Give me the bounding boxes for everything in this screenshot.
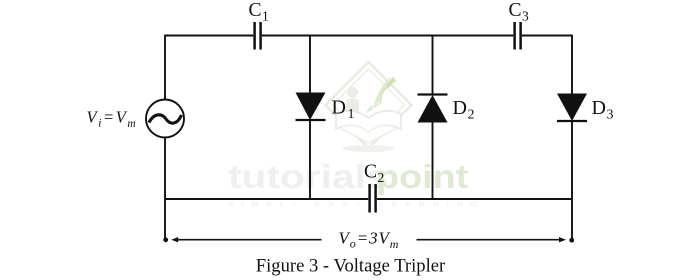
arrow right of Vo	[417, 237, 567, 242]
svg-text:C: C	[509, 0, 522, 21]
wire right drop to node	[571, 198, 573, 240]
watermark logo diamond	[326, 62, 412, 152]
wire D3 bottom	[571, 121, 573, 199]
capacitor C3	[515, 22, 521, 50]
wire D1 bottom	[309, 120, 311, 199]
svg-text:D: D	[332, 97, 346, 119]
svg-text:2: 2	[468, 108, 475, 123]
wire source top	[164, 35, 166, 100]
wire source bottom	[164, 138, 166, 200]
svg-text:3: 3	[607, 108, 614, 123]
svg-text:2: 2	[378, 170, 385, 185]
bottom rail left segment	[165, 198, 368, 200]
svg-text:D: D	[592, 97, 606, 119]
arrow left of Vo	[171, 237, 321, 242]
capacitor C2	[370, 184, 376, 213]
svg-text:C: C	[249, 0, 262, 21]
svg-text:Figure 3 - Voltage Tripler: Figure 3 - Voltage Tripler	[256, 256, 446, 277]
wire top rail left segment	[165, 35, 253, 37]
svg-text:D: D	[453, 97, 467, 119]
svg-text:Vi=Vm: Vi=Vm	[87, 107, 138, 130]
wire D3 top	[571, 35, 573, 94]
node dot left	[163, 237, 168, 242]
wire top rail middle segment	[262, 35, 513, 37]
bottom rail right segment	[377, 198, 572, 200]
node dot right	[569, 238, 574, 243]
wire left drop to node	[164, 198, 166, 238]
diode D2	[418, 95, 448, 123]
ac source V_i	[146, 100, 184, 138]
watermark text tutorialspoint	[228, 158, 485, 209]
svg-text:SIMPLY EASY LEARNING: SIMPLY EASY LEARNING	[228, 200, 485, 208]
svg-text:3: 3	[522, 9, 529, 24]
wire D2 top	[432, 35, 434, 95]
svg-text:1: 1	[262, 9, 269, 24]
wire D1 top	[309, 35, 311, 93]
diode D3	[557, 94, 587, 122]
svg-text:Vo=3Vm: Vo=3Vm	[339, 228, 400, 251]
capacitor C1	[255, 22, 261, 50]
wire top rail right segment	[522, 35, 572, 37]
wire D2 bottom	[432, 123, 434, 200]
svg-text:point: point	[376, 158, 468, 195]
svg-text:C: C	[364, 162, 377, 183]
diode D1	[296, 93, 326, 121]
svg-text:1: 1	[348, 107, 355, 122]
